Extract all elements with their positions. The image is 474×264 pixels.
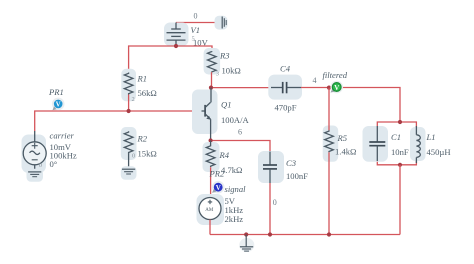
svg-text:C1: C1 — [391, 132, 401, 142]
svg-text:R5: R5 — [337, 133, 348, 143]
junction rail-R5 — [327, 232, 331, 236]
probe PR1 — [48, 87, 65, 110]
junction collector node — [209, 86, 213, 90]
wire bottom rail — [210, 234, 400, 236]
ground GND-R2 — [121, 166, 137, 180]
wire R5 bottom to rail — [328, 152, 330, 234]
svg-text:56kΩ: 56kΩ — [138, 88, 157, 98]
junction V1 bottom — [174, 44, 178, 48]
ac source carrier — [22, 131, 77, 174]
ground GND-top (sideways) — [215, 16, 228, 30]
svg-text:2: 2 — [132, 96, 135, 103]
inductor L1 — [410, 126, 451, 163]
probe PR2 — [209, 169, 225, 194]
wire R4 top / emitter node — [211, 141, 270, 152]
svg-text:3: 3 — [216, 71, 219, 78]
svg-text:0: 0 — [273, 198, 277, 207]
svg-text:R3: R3 — [219, 51, 230, 61]
svg-text:C3: C3 — [286, 158, 296, 168]
capacitor C1 — [363, 126, 409, 162]
svg-text:1.4kΩ: 1.4kΩ — [335, 147, 356, 157]
ground GND-carrier — [27, 169, 44, 182]
svg-text:signal: signal — [225, 184, 247, 194]
svg-text:V: V — [334, 84, 339, 92]
resistor R5 — [323, 88, 357, 162]
svg-text:PR2: PR2 — [209, 169, 225, 179]
svg-text:C4: C4 — [280, 64, 291, 74]
svg-text:0°: 0° — [50, 159, 58, 169]
svg-text:4: 4 — [313, 76, 317, 85]
resistor R1 — [121, 69, 156, 103]
svg-text:R2: R2 — [137, 134, 148, 144]
svg-text:15kΩ: 15kΩ — [138, 149, 157, 159]
wire C4 to filtered node — [301, 88, 400, 123]
ground GND-bottom — [239, 235, 254, 253]
wire C3 bottom to rail — [269, 183, 271, 235]
svg-text:6: 6 — [238, 128, 242, 137]
svg-text:carrier: carrier — [50, 131, 75, 141]
svg-text:450µH: 450µH — [427, 147, 451, 157]
wire R4 bottom to signal — [210, 167, 212, 197]
svg-text:PR1: PR1 — [48, 87, 64, 97]
svg-text:V: V — [56, 101, 61, 109]
capacitor C3 — [258, 151, 308, 183]
junction filtered node — [327, 86, 331, 90]
wire +10V rail — [129, 46, 212, 72]
capacitor C4 — [268, 64, 302, 113]
wire R3 bottom to collector node — [211, 72, 213, 87]
svg-text:0: 0 — [132, 153, 135, 160]
svg-text:10nF: 10nF — [391, 147, 409, 157]
wire top: V1 plus to ground — [176, 22, 221, 24]
svg-text:L1: L1 — [426, 132, 436, 142]
wire LC bottom to rail — [399, 165, 401, 235]
junction emitter node — [209, 138, 213, 142]
resistor R2 — [121, 127, 157, 169]
junction LC bottom — [398, 163, 402, 167]
svg-text:10kΩ: 10kΩ — [222, 66, 241, 76]
svg-text:V1: V1 — [191, 25, 201, 35]
resistor R4 — [203, 141, 243, 176]
svg-text:R4: R4 — [219, 150, 230, 160]
svg-text:100nF: 100nF — [286, 171, 308, 181]
junction LC top — [398, 120, 402, 124]
dc source V1 — [164, 23, 209, 48]
svg-text:R1: R1 — [137, 74, 148, 84]
resistor R3 — [204, 48, 241, 78]
svg-text:0: 0 — [39, 162, 42, 169]
svg-text:470pF: 470pF — [275, 103, 297, 113]
wire R1 bottom to base bus — [128, 95, 130, 112]
ac source signal (AM) — [197, 184, 247, 235]
transistor Q1 — [192, 88, 249, 141]
svg-text:filtered: filtered — [323, 70, 348, 80]
svg-text:0: 0 — [194, 12, 198, 21]
wire base bus — [35, 111, 202, 131]
junction rail-ground — [244, 232, 248, 236]
junction rail-C3 — [268, 232, 272, 236]
svg-text:Q1: Q1 — [221, 100, 232, 110]
svg-text:AM: AM — [205, 208, 214, 213]
probe filtered — [323, 70, 348, 93]
wire collector node to C4 — [211, 87, 271, 89]
wire LC tank loop — [377, 122, 416, 165]
svg-text:2kHz: 2kHz — [225, 214, 244, 224]
svg-text:V: V — [216, 184, 221, 192]
junction R1/R2/base — [127, 109, 131, 113]
svg-text:100A/A: 100A/A — [221, 115, 249, 125]
